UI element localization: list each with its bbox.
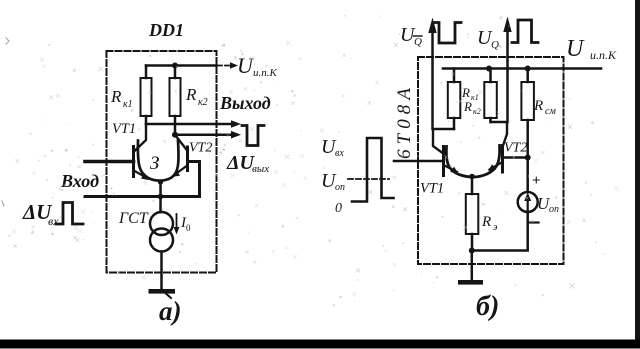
wire: emitter to Re bbox=[471, 176, 474, 194]
wire: source bottom to ground node bbox=[472, 212, 528, 251]
page right edge dashed bar bbox=[635, 0, 640, 340]
node: VT2 collector junction bbox=[172, 132, 178, 138]
waveform: input pulse bbox=[56, 203, 83, 225]
svg-text:и.п.К: и.п.К bbox=[253, 67, 278, 79]
wire: emitter to current source bbox=[159, 182, 162, 212]
svg-text:6Т08А: 6Т08А bbox=[394, 83, 415, 159]
ground (right) bbox=[458, 280, 483, 285]
svg-text:VT1: VT1 bbox=[112, 121, 136, 137]
current I0 arrow bbox=[176, 214, 178, 229]
ground (left) bbox=[149, 289, 176, 294]
resistor Rk2 (right) bbox=[489, 69, 492, 83]
waveform: Uop dashed level bbox=[348, 178, 389, 180]
svg-text:а): а) bbox=[159, 296, 182, 326]
output arrow 1 bbox=[217, 123, 233, 126]
svg-text:к1: к1 bbox=[123, 99, 133, 110]
wire rail to Uipk (dashed) bbox=[218, 65, 231, 67]
transistor VT2 (right) collector bbox=[491, 122, 508, 147]
supply rail (left circuit) bbox=[146, 64, 217, 67]
svg-text:вх: вх bbox=[335, 148, 344, 159]
svg-text:R: R bbox=[463, 99, 472, 114]
node: Rk2 top bbox=[486, 66, 492, 72]
svg-text:к2: к2 bbox=[198, 97, 208, 108]
label minus bbox=[529, 221, 539, 223]
node: Rk2 tap on rail bbox=[172, 63, 178, 69]
output line Q-bar (up arrow) bbox=[431, 30, 434, 129]
output arrow 2 bbox=[217, 133, 233, 136]
shared emitter cup bbox=[138, 141, 179, 181]
resistor Rk2 bbox=[174, 66, 177, 79]
svg-text:R: R bbox=[461, 85, 470, 100]
svg-text:Выход: Выход bbox=[219, 93, 271, 113]
voltage source Uop bbox=[526, 158, 529, 193]
node: crossing blob bbox=[158, 194, 164, 200]
supply rail (right circuit) bbox=[443, 67, 601, 70]
svg-text:R: R bbox=[185, 85, 197, 104]
shared emitter cup (right) bbox=[446, 146, 499, 178]
transistor VT1 (right) collector bbox=[433, 129, 454, 153]
svg-text:вых: вых bbox=[252, 163, 269, 175]
transistor VT2 (left) bbox=[175, 135, 188, 151]
wire: ground node down bbox=[471, 251, 474, 281]
stray mark top left bbox=[6, 38, 9, 44]
scan noise speckle bbox=[8, 15, 618, 306]
resistor Rk1 bbox=[145, 66, 148, 79]
svg-text:З: З bbox=[150, 153, 159, 174]
svg-text:Q: Q bbox=[491, 39, 499, 51]
svg-text:к1: к1 bbox=[471, 93, 479, 102]
wire input 1 (to VT1 base) bbox=[85, 160, 134, 164]
wire: Re bottom to ground node bbox=[471, 234, 474, 251]
svg-text:вх: вх bbox=[48, 214, 59, 228]
svg-text:б): б) bbox=[476, 291, 499, 322]
wire VT2 base to bias node bbox=[503, 156, 528, 159]
svg-text:0: 0 bbox=[335, 201, 342, 216]
svg-text:U: U bbox=[566, 36, 585, 62]
page bottom black bar bbox=[0, 340, 640, 349]
node: Rsm top bbox=[525, 66, 531, 72]
transistor VT1 (left) bbox=[135, 124, 147, 151]
svg-text:0: 0 bbox=[186, 223, 191, 233]
svg-text:э: э bbox=[493, 222, 498, 233]
waveform: negative pulse at output bbox=[242, 126, 264, 146]
svg-text:R: R bbox=[481, 214, 491, 230]
wire: collector line 2 (Rk2 bottom to output) bbox=[175, 133, 217, 136]
svg-text:Вход: Вход bbox=[60, 171, 99, 191]
svg-text:VT1: VT1 bbox=[420, 181, 444, 197]
svg-text:R: R bbox=[110, 87, 122, 106]
svg-text:ГСТ: ГСТ bbox=[118, 210, 149, 227]
resistor Rk1 (right) bbox=[453, 69, 456, 83]
svg-text:DD1: DD1 bbox=[148, 20, 184, 40]
svg-text:оп: оп bbox=[335, 182, 345, 193]
waveform: Q pulse bbox=[512, 20, 538, 43]
wire input (to VT1 base, right) bbox=[394, 160, 444, 163]
wire: current source to ground bbox=[160, 252, 163, 290]
node: ground junction bbox=[469, 248, 475, 254]
svg-text:VT2: VT2 bbox=[189, 141, 212, 156]
waveform: input pulse (right) bbox=[352, 138, 394, 202]
node: emitter junction left bbox=[158, 179, 163, 184]
wire: collector line 1 (Rk1 bottom to output) bbox=[146, 123, 217, 126]
waveform: Q-bar pulse bbox=[434, 23, 461, 44]
node: bias junction bbox=[525, 155, 531, 161]
node: emitter junction bbox=[469, 174, 475, 180]
current source GST (two circles) bbox=[150, 212, 173, 235]
svg-text:R: R bbox=[533, 98, 543, 114]
IC box (dashed) bbox=[418, 57, 564, 264]
stray mark mid left bbox=[2, 201, 4, 206]
svg-text:Q: Q bbox=[414, 36, 422, 48]
svg-text:+: + bbox=[532, 173, 541, 189]
svg-text:см: см bbox=[545, 106, 556, 117]
output line Q (up arrow) bbox=[506, 29, 509, 122]
svg-text:и.п.К: и.п.К bbox=[590, 48, 617, 62]
resistor Re bbox=[466, 194, 479, 234]
svg-text:к2: к2 bbox=[473, 107, 481, 116]
arrowhead to Uipk bbox=[230, 62, 238, 69]
wire input 2 loop (to VT2 base) bbox=[85, 162, 200, 197]
svg-text:оп: оп bbox=[549, 204, 559, 215]
IC box DD1 (dashed) bbox=[107, 51, 217, 273]
resistor Rsm bbox=[526, 69, 529, 83]
svg-text:VT2: VT2 bbox=[504, 141, 527, 156]
